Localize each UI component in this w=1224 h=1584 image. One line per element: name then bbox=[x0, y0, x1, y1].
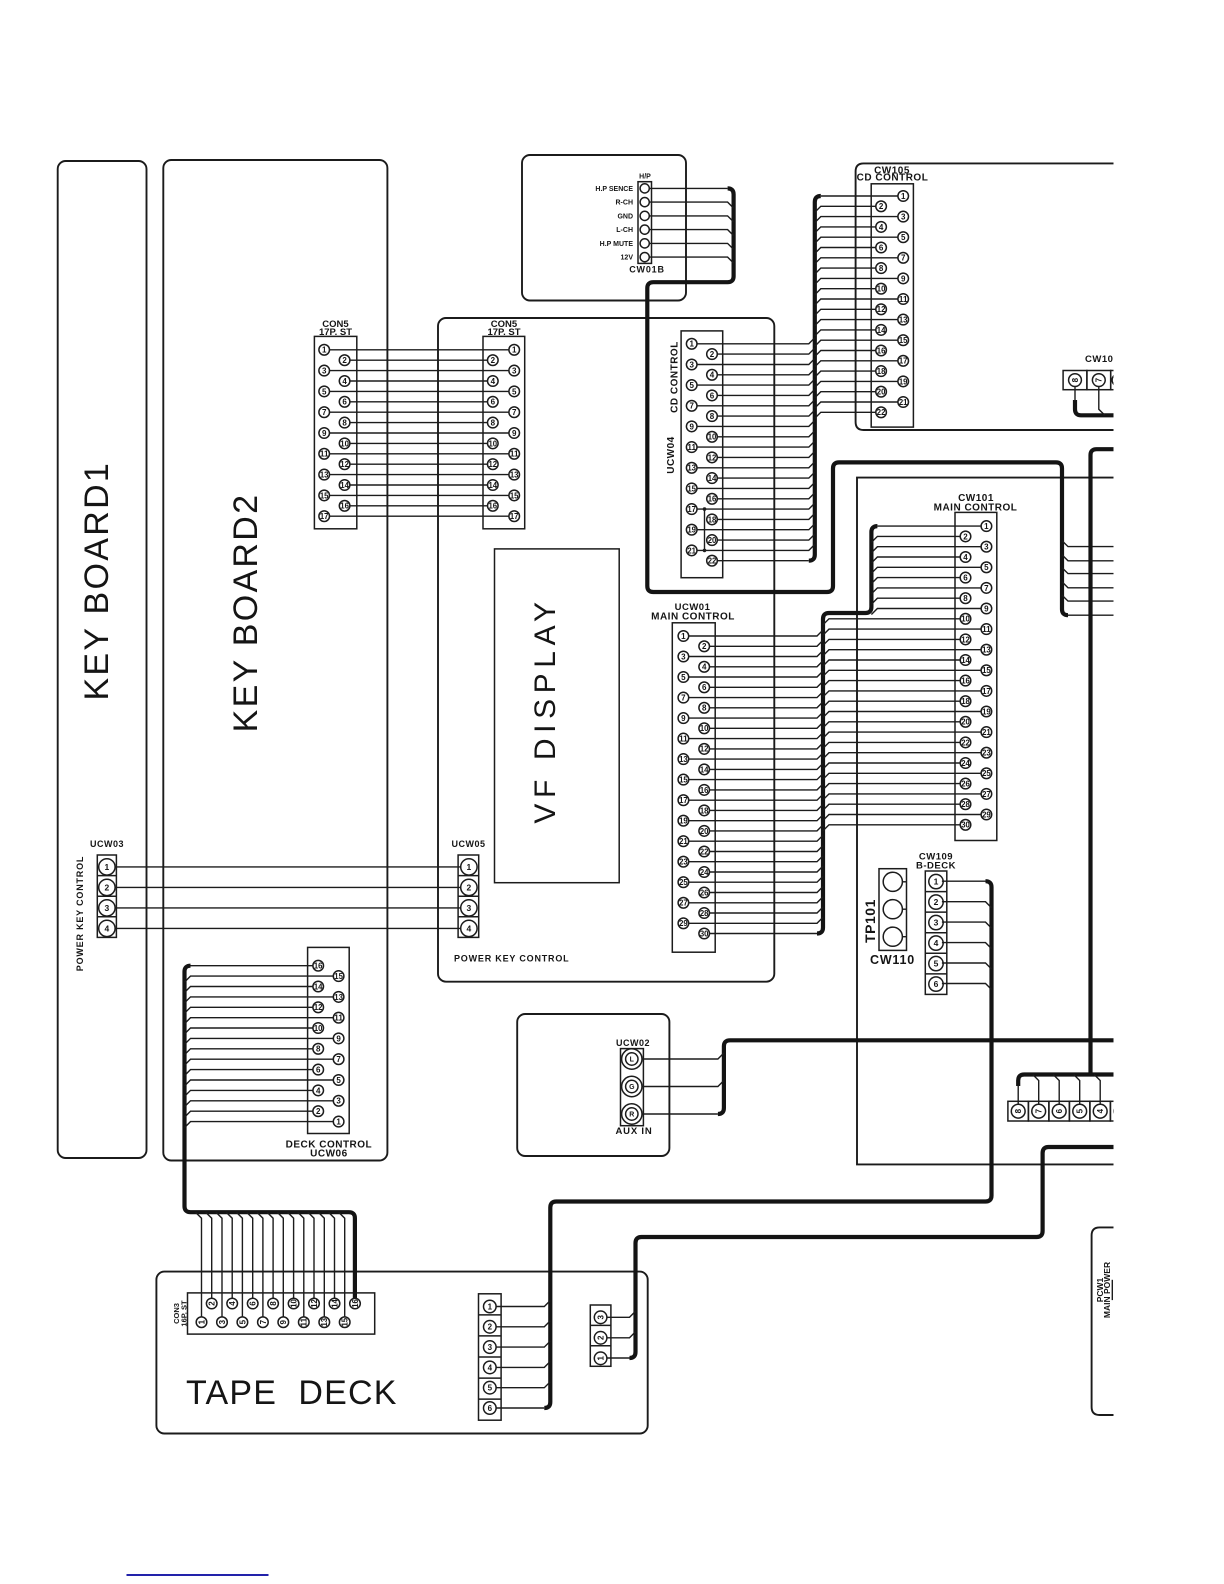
wire UCW01 pin 24 to bus bbox=[710, 866, 824, 872]
svg-text:4: 4 bbox=[879, 223, 884, 232]
svg-text:7: 7 bbox=[984, 584, 989, 593]
svg-text:20: 20 bbox=[877, 388, 886, 397]
svg-text:8: 8 bbox=[710, 412, 715, 421]
wire CW105 pin 19 from bus bbox=[815, 381, 898, 387]
wire CW105 pin 14 from bus bbox=[815, 330, 876, 336]
svg-text:18: 18 bbox=[877, 367, 886, 376]
wire UCW01 pin 30 to bus bbox=[710, 933, 818, 935]
svg-text:29: 29 bbox=[679, 919, 688, 928]
svg-text:21: 21 bbox=[687, 546, 696, 555]
svg-text:16: 16 bbox=[489, 502, 498, 511]
wire CON6 pin 15 bbox=[330, 494, 509, 496]
wire UCW01 pin 6 to bus bbox=[710, 681, 824, 687]
svg-text:UCW06: UCW06 bbox=[310, 1149, 348, 1160]
wire CW105 pin 7 from bus bbox=[815, 258, 898, 264]
svg-text:4: 4 bbox=[105, 924, 110, 934]
svg-text:KEY BOARD1: KEY BOARD1 bbox=[78, 461, 116, 701]
connector CON6 17P.ST (right, on display board) bbox=[483, 319, 525, 529]
svg-text:8: 8 bbox=[702, 704, 707, 713]
wire headphone bundle exit 2 to board edge bbox=[1062, 555, 1114, 561]
jumper UCW04 pins 17-21 bbox=[704, 509, 706, 550]
wire UCW01 pin 5 to bus bbox=[689, 671, 823, 677]
svg-text:9: 9 bbox=[336, 1034, 341, 1043]
svg-text:10: 10 bbox=[290, 1299, 299, 1308]
svg-text:10: 10 bbox=[877, 285, 886, 294]
svg-text:15: 15 bbox=[334, 972, 343, 981]
wire UCW04 pin 4 to bus bbox=[717, 369, 815, 375]
svg-text:12: 12 bbox=[489, 460, 498, 469]
svg-text:28: 28 bbox=[961, 800, 970, 809]
wire drop to CON9 pin 9 bbox=[277, 1212, 283, 1317]
svg-text:3: 3 bbox=[512, 367, 517, 376]
svg-text:3: 3 bbox=[681, 652, 686, 661]
wire CW01B pin 4 to bus bbox=[649, 230, 733, 236]
wire UCW03 pin 3 to UCW05 pin 3 bbox=[115, 907, 461, 909]
svg-text:11: 11 bbox=[510, 450, 519, 459]
svg-text:17: 17 bbox=[679, 796, 688, 805]
svg-text:7: 7 bbox=[512, 408, 517, 417]
svg-text:4: 4 bbox=[710, 371, 715, 380]
wire CW101 pin 8 from bus bbox=[871, 598, 960, 604]
wire CW01B pin 3 to bus bbox=[649, 216, 733, 222]
wire CW101 pin 4 from bus bbox=[871, 557, 960, 563]
svg-text:7: 7 bbox=[336, 1055, 341, 1064]
wire headphone bundle exit 6 to board edge bbox=[1068, 614, 1114, 616]
wire UCW06 pin 14 to bus bbox=[185, 987, 313, 993]
wire CON6 pin 7 bbox=[330, 411, 509, 413]
svg-text:3: 3 bbox=[105, 903, 110, 913]
svg-text:13: 13 bbox=[510, 471, 519, 480]
wire CW101 pin 2 from bus bbox=[871, 536, 960, 542]
wire UCW04 pin 21 to bus bbox=[697, 544, 815, 550]
svg-text:25: 25 bbox=[982, 769, 991, 778]
wire CW101 pin 11 from bus bbox=[823, 629, 981, 635]
wire CW101 pin 5 from bus bbox=[871, 567, 981, 573]
svg-text:KEY BOARD2: KEY BOARD2 bbox=[227, 493, 265, 733]
wire CW105 pin 15 from bus bbox=[815, 340, 898, 346]
board AUX IN board outline bbox=[517, 1014, 669, 1156]
wire CW105 pin 17 from bus bbox=[815, 361, 898, 367]
wire CW105 pin 13 from bus bbox=[815, 320, 898, 326]
wire UCW04 pin 19 to bus bbox=[697, 524, 815, 530]
wire drop to CON9 pin 11 bbox=[298, 1212, 304, 1317]
svg-text:13: 13 bbox=[687, 464, 696, 473]
wire CW105 pin 12 from bus bbox=[815, 309, 876, 315]
wire 6-pin connector pin 1 from bus bbox=[496, 1301, 550, 1307]
connector CW01B H/P bbox=[629, 174, 665, 275]
svg-text:12: 12 bbox=[877, 305, 886, 314]
svg-text:12: 12 bbox=[314, 1003, 323, 1012]
svg-text:8: 8 bbox=[1014, 1108, 1023, 1113]
wire CON6 pin 1 bbox=[330, 349, 509, 351]
wire UCW04 pin 15 to bus bbox=[697, 482, 815, 488]
wire UCW04 pin 12 to bus bbox=[717, 451, 815, 457]
wire 3-pin connector pin 2 from bus bbox=[607, 1332, 636, 1338]
wire UCW02 pin L to bus bbox=[642, 1053, 724, 1059]
board KEY BOARD1 outline bbox=[58, 161, 147, 1158]
svg-text:6: 6 bbox=[491, 398, 496, 407]
svg-text:6: 6 bbox=[342, 398, 347, 407]
wire CON6 pin 17 bbox=[330, 515, 509, 517]
wire UCW01 pin 3 to bus bbox=[689, 651, 823, 657]
svg-text:5: 5 bbox=[336, 1076, 341, 1085]
wire drop to CON9 pin 14 bbox=[329, 1212, 335, 1298]
svg-text:14: 14 bbox=[708, 474, 717, 483]
wire UCW06 pin 10 to bus bbox=[185, 1028, 313, 1034]
svg-text:17: 17 bbox=[982, 687, 991, 696]
bus UCW01 to CW101 (30 wires) bbox=[817, 526, 877, 933]
bus CW01B headphone bundle (6 wires) to main board edge bbox=[647, 188, 1068, 615]
wire UCW06 pin 1 to bus bbox=[185, 1122, 334, 1128]
svg-text:4: 4 bbox=[963, 553, 968, 562]
wire UCW01 pin 7 to bus bbox=[689, 692, 823, 698]
board TAPE DECK outline bbox=[156, 1272, 647, 1434]
svg-text:4: 4 bbox=[488, 1363, 493, 1372]
svg-text:16: 16 bbox=[351, 1299, 360, 1308]
svg-text:14: 14 bbox=[340, 481, 349, 490]
svg-text:H.P SENCE: H.P SENCE bbox=[595, 186, 633, 193]
wire CW105 pin 10 from bus bbox=[815, 289, 876, 295]
svg-text:13: 13 bbox=[320, 471, 329, 480]
wire UCW01 pin 12 to bus bbox=[710, 743, 824, 749]
wire UCW06 pin 7 to bus bbox=[185, 1059, 334, 1065]
svg-text:17: 17 bbox=[899, 357, 908, 366]
wire CW101 pin 14 from bus bbox=[823, 660, 960, 666]
svg-text:UCW02: UCW02 bbox=[616, 1038, 650, 1048]
wire CW101 pin 30 from bus bbox=[823, 825, 960, 831]
wire UCW01 pin 27 to bus bbox=[689, 897, 823, 903]
svg-text:11: 11 bbox=[687, 443, 696, 452]
svg-text:3: 3 bbox=[934, 918, 939, 928]
svg-text:12: 12 bbox=[708, 453, 717, 462]
wire UCW01 pin 20 to bus bbox=[710, 825, 824, 831]
wire CON6 pin 12 bbox=[350, 463, 488, 465]
svg-text:1: 1 bbox=[901, 192, 906, 201]
wire CW105 pin 9 from bus bbox=[815, 278, 898, 284]
svg-text:1: 1 bbox=[105, 862, 110, 872]
blue reference line bbox=[127, 1574, 269, 1576]
svg-text:19: 19 bbox=[679, 817, 688, 826]
wire CW101 pin 24 from bus bbox=[823, 763, 960, 769]
svg-text:12: 12 bbox=[961, 635, 970, 644]
wire CW101 pin 15 from bus bbox=[823, 670, 981, 676]
svg-text:30: 30 bbox=[700, 929, 709, 938]
wire drop to CON9 pin 8 bbox=[267, 1212, 273, 1298]
svg-text:6: 6 bbox=[1055, 1108, 1064, 1113]
svg-text:15: 15 bbox=[687, 484, 696, 493]
wire CW101 pin 7 from bus bbox=[871, 588, 981, 594]
svg-text:6: 6 bbox=[488, 1404, 493, 1413]
wire headphone bundle exit 4 to board edge bbox=[1062, 582, 1114, 588]
svg-text:23: 23 bbox=[982, 749, 991, 758]
wire drop to CON9 pin 5 bbox=[236, 1212, 242, 1317]
wire UCW04 pin 2 to bus bbox=[717, 348, 815, 354]
svg-text:G: G bbox=[629, 1084, 635, 1091]
wire headphone bundle exit 1 to board edge bbox=[1062, 541, 1114, 547]
svg-text:8: 8 bbox=[879, 264, 884, 273]
svg-text:H/P: H/P bbox=[639, 174, 651, 181]
svg-text:3: 3 bbox=[467, 903, 472, 913]
svg-text:18: 18 bbox=[961, 697, 970, 706]
wire CW01B pin 2 to bus bbox=[649, 202, 733, 208]
svg-text:TAPE DECK: TAPE DECK bbox=[186, 1374, 398, 1412]
svg-text:13: 13 bbox=[679, 755, 688, 764]
wire CW101 pin 20 from bus bbox=[823, 722, 960, 728]
svg-text:UCW04: UCW04 bbox=[666, 436, 677, 474]
wire UCW04 pin 7 to bus bbox=[697, 400, 815, 406]
svg-text:16: 16 bbox=[314, 962, 323, 971]
svg-text:3: 3 bbox=[689, 360, 694, 369]
wire UCW01 pin 11 to bus bbox=[689, 733, 823, 739]
wire row pin 7 drop bbox=[1033, 1075, 1039, 1105]
svg-text:22: 22 bbox=[877, 408, 886, 417]
svg-text:3: 3 bbox=[901, 213, 906, 222]
svg-text:12: 12 bbox=[310, 1299, 319, 1308]
svg-text:14: 14 bbox=[489, 481, 498, 490]
svg-text:2: 2 bbox=[105, 883, 110, 893]
wire CW105 pin 8 from bus bbox=[815, 268, 876, 274]
svg-text:21: 21 bbox=[679, 837, 688, 846]
svg-text:UCW03: UCW03 bbox=[90, 839, 124, 849]
svg-text:7: 7 bbox=[1035, 1108, 1044, 1113]
connector UCW04 CD CONTROL bbox=[681, 331, 723, 578]
svg-text:22: 22 bbox=[700, 847, 709, 856]
svg-text:1: 1 bbox=[984, 522, 989, 531]
bus UCW02 AUX to main board edge (3 wires) bbox=[718, 1040, 1114, 1114]
wire headphone bundle exit 5 to board edge bbox=[1062, 595, 1114, 601]
svg-text:9: 9 bbox=[984, 604, 989, 613]
svg-text:MAIN POWER: MAIN POWER bbox=[1102, 1262, 1112, 1318]
connector CW109 B-DECK bbox=[916, 852, 956, 995]
svg-text:11: 11 bbox=[300, 1317, 309, 1326]
svg-text:10: 10 bbox=[314, 1024, 323, 1033]
wire UCW04 pin 18 to bus bbox=[717, 513, 815, 519]
wire UCW06 pin 15 to bus bbox=[185, 976, 334, 982]
svg-text:2: 2 bbox=[963, 532, 968, 541]
wire CW109 pin 6 to bus bbox=[942, 984, 992, 990]
board PCW1 MAIN POWER outline (clipped at right) bbox=[1092, 1227, 1114, 1415]
svg-text:7: 7 bbox=[689, 402, 694, 411]
wire CW105 pin 20 from bus bbox=[815, 392, 876, 398]
bus top-right row to board edge bbox=[1075, 400, 1114, 415]
svg-text:14: 14 bbox=[700, 765, 709, 774]
wire UCW04 pin 5 to bus bbox=[697, 379, 815, 385]
wire UCW06 pin 8 to bus bbox=[185, 1049, 313, 1055]
connector CW105 CD CONTROL bbox=[857, 166, 929, 428]
svg-text:11: 11 bbox=[899, 295, 908, 304]
wire UCW01 pin 17 to bus bbox=[689, 794, 823, 800]
svg-text:6: 6 bbox=[316, 1066, 321, 1075]
svg-text:10: 10 bbox=[700, 724, 709, 733]
wire CW105 pin 16 from bus bbox=[815, 351, 876, 357]
svg-text:2: 2 bbox=[488, 1323, 493, 1332]
wire CON6 pin 8 bbox=[350, 422, 488, 424]
svg-text:19: 19 bbox=[899, 377, 908, 386]
svg-text:3: 3 bbox=[488, 1343, 493, 1352]
wire UCW06 pin 12 to bus bbox=[185, 1007, 313, 1013]
svg-text:1: 1 bbox=[336, 1118, 341, 1127]
wire CON6 pin 13 bbox=[330, 474, 509, 476]
wire CON6 pin 3 bbox=[330, 370, 509, 372]
wire UCW01 pin 26 to bus bbox=[710, 887, 824, 893]
wire UCW01 pin 14 to bus bbox=[710, 763, 824, 769]
wire drop to CON9 pin 6 bbox=[247, 1212, 253, 1298]
svg-text:4: 4 bbox=[1096, 1108, 1105, 1113]
wire CW101 pin 28 from bus bbox=[823, 804, 960, 810]
svg-text:2: 2 bbox=[702, 642, 707, 651]
wire drop to CON9 pin 13 bbox=[318, 1212, 324, 1317]
svg-text:5: 5 bbox=[901, 233, 906, 242]
wire CON6 pin 4 bbox=[350, 380, 488, 382]
connector 3-pin (tape deck) bbox=[590, 1305, 611, 1366]
wire UCW06 pin 9 to bus bbox=[185, 1038, 334, 1044]
wire CW105 pin 22 from bus bbox=[815, 412, 876, 418]
svg-text:11: 11 bbox=[982, 625, 991, 634]
wire UCW01 pin 16 to bus bbox=[710, 784, 824, 790]
board KEY BOARD2 outline bbox=[163, 160, 387, 1161]
svg-text:CD CONTROL: CD CONTROL bbox=[857, 173, 929, 184]
svg-text:POWER KEY CONTROL: POWER KEY CONTROL bbox=[454, 954, 569, 964]
svg-text:22: 22 bbox=[961, 738, 970, 747]
wire UCW06 pin 4 to bus bbox=[185, 1090, 313, 1096]
svg-text:5: 5 bbox=[984, 563, 989, 572]
svg-text:16P. ST: 16P. ST bbox=[180, 1300, 189, 1327]
svg-text:13: 13 bbox=[982, 646, 991, 655]
svg-text:15: 15 bbox=[899, 336, 908, 345]
svg-text:1: 1 bbox=[197, 1319, 206, 1324]
wire 6-pin connector pin 4 from bus bbox=[496, 1361, 550, 1367]
wire CW105 pin 18 from bus bbox=[815, 371, 876, 377]
svg-text:7: 7 bbox=[322, 408, 327, 417]
wire CON6 pin 9 bbox=[330, 432, 509, 434]
svg-text:7: 7 bbox=[259, 1319, 268, 1324]
svg-text:CW01B: CW01B bbox=[629, 265, 665, 275]
bus right-edge vertical (CD board to connector row) bbox=[1091, 449, 1114, 1074]
rect VF DISPLAY bbox=[495, 549, 620, 883]
svg-text:VF DISPLAY: VF DISPLAY bbox=[529, 596, 562, 823]
wire UCW01 pin 15 to bus bbox=[689, 774, 823, 780]
svg-text:14: 14 bbox=[877, 326, 886, 335]
wire drop to CON9 pin 10 bbox=[288, 1212, 294, 1298]
wire CW01B pin 6 to bus bbox=[649, 257, 733, 263]
svg-text:15: 15 bbox=[982, 666, 991, 675]
wire CW101 pin 17 from bus bbox=[823, 691, 981, 697]
wire CON6 pin 11 bbox=[330, 453, 509, 455]
connector UCW05 POWER KEY CONTROL bbox=[451, 839, 485, 937]
svg-text:2: 2 bbox=[934, 897, 939, 907]
wire row pin 8 drop bbox=[1017, 1085, 1019, 1104]
wire CW101 pin 21 from bus bbox=[823, 732, 981, 738]
wire UCW03 pin 1 to UCW05 pin 1 bbox=[115, 866, 461, 868]
wire UCW03 pin 4 to UCW05 pin 4 bbox=[115, 927, 461, 929]
svg-text:5: 5 bbox=[934, 959, 939, 969]
wire UCW02 pin R to bus bbox=[642, 1113, 718, 1115]
svg-text:18: 18 bbox=[708, 515, 717, 524]
connector UCW06 DECK CONTROL bbox=[286, 947, 373, 1159]
wire UCW04 pin 9 to bus bbox=[697, 420, 815, 426]
connector UCW01 MAIN CONTROL bbox=[651, 602, 735, 952]
svg-text:4: 4 bbox=[316, 1086, 321, 1095]
svg-text:24: 24 bbox=[961, 759, 970, 768]
svg-text:6: 6 bbox=[963, 574, 968, 583]
wire CON6 pin 16 bbox=[350, 505, 488, 507]
svg-text:12V: 12V bbox=[621, 255, 634, 262]
svg-text:2: 2 bbox=[208, 1301, 217, 1306]
wire CW105 pin 6 from bus bbox=[815, 248, 876, 254]
svg-text:10: 10 bbox=[340, 439, 349, 448]
svg-text:12: 12 bbox=[700, 745, 709, 754]
wire 6-pin connector pin 5 from bus bbox=[496, 1382, 550, 1388]
wire CW105 pin 11 from bus bbox=[815, 299, 898, 305]
wire UCW06 pin 16 to bus bbox=[191, 965, 313, 967]
wire 6-pin connector pin 2 from bus bbox=[496, 1321, 550, 1327]
svg-text:11: 11 bbox=[334, 1014, 343, 1023]
svg-text:23: 23 bbox=[679, 858, 688, 867]
wire UCW01 pin 25 to bus bbox=[689, 876, 823, 882]
svg-text:20: 20 bbox=[700, 827, 709, 836]
wire CW101 pin 10 from bus bbox=[823, 619, 960, 625]
connector UCW02 AUX IN bbox=[616, 1038, 653, 1137]
wire 6-pin connector pin 6 from bus bbox=[496, 1407, 544, 1409]
wire UCW01 pin 13 to bus bbox=[689, 753, 823, 759]
svg-text:14: 14 bbox=[330, 1299, 339, 1308]
wire UCW06 pin 5 to bus bbox=[185, 1080, 334, 1086]
wire UCW04 pin 22 to bus bbox=[717, 560, 809, 562]
wire CW101 pin 25 from bus bbox=[823, 773, 981, 779]
svg-text:26: 26 bbox=[961, 780, 970, 789]
svg-text:CD CONTROL: CD CONTROL bbox=[670, 341, 681, 413]
svg-text:R: R bbox=[629, 1112, 634, 1119]
test points TP101 / CW110 bbox=[862, 869, 915, 967]
svg-text:16: 16 bbox=[700, 786, 709, 795]
svg-text:2: 2 bbox=[879, 202, 884, 211]
wire CW105 pin 2 from bus bbox=[815, 206, 876, 212]
svg-text:9: 9 bbox=[279, 1319, 288, 1324]
svg-text:L-CH: L-CH bbox=[616, 227, 633, 234]
wire CW109 pin 1 to bus bbox=[942, 880, 986, 882]
wire UCW01 pin 21 to bus bbox=[689, 835, 823, 841]
svg-text:1: 1 bbox=[689, 340, 694, 349]
wire headphone bundle exit 3 to board edge bbox=[1062, 568, 1114, 574]
wire 3-pin connector pin 1 from bus bbox=[607, 1357, 630, 1359]
svg-text:CW10: CW10 bbox=[1085, 354, 1113, 365]
svg-text:13: 13 bbox=[334, 993, 343, 1002]
svg-text:9: 9 bbox=[689, 422, 694, 431]
svg-text:B-DECK: B-DECK bbox=[916, 861, 956, 872]
svg-text:3: 3 bbox=[218, 1319, 227, 1324]
svg-text:3: 3 bbox=[322, 367, 327, 376]
wire UCW01 pin 9 to bus bbox=[689, 712, 823, 718]
svg-text:13: 13 bbox=[899, 316, 908, 325]
svg-text:12: 12 bbox=[340, 460, 349, 469]
wire UCW04 pin 10 to bus bbox=[717, 431, 815, 437]
connector CW101 MAIN CONTROL bbox=[934, 493, 1018, 841]
wire CW101 pin 9 from bus bbox=[871, 609, 981, 615]
wire CON6 pin 6 bbox=[350, 401, 488, 403]
wire UCW04 pin 13 to bus bbox=[697, 462, 815, 468]
svg-text:5: 5 bbox=[488, 1384, 493, 1393]
svg-text:7: 7 bbox=[1095, 377, 1104, 382]
svg-text:2: 2 bbox=[596, 1335, 605, 1340]
bus CW109 B-DECK to tape deck 6-pin connector bbox=[544, 881, 991, 1408]
wire UCW01 pin 23 to bus bbox=[689, 856, 823, 862]
svg-text:21: 21 bbox=[899, 398, 908, 407]
svg-text:3: 3 bbox=[336, 1097, 341, 1106]
svg-text:CW110: CW110 bbox=[870, 953, 915, 967]
wire row pin 7 drop bbox=[1099, 387, 1105, 416]
svg-text:2: 2 bbox=[342, 356, 347, 365]
svg-text:10: 10 bbox=[489, 439, 498, 448]
